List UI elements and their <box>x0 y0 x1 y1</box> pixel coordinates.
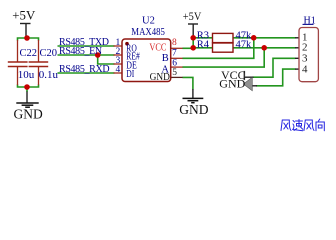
svg-text:GND: GND <box>150 72 170 83</box>
svg-text:RS485_EN: RS485_EN <box>59 46 102 57</box>
svg-text:GND: GND <box>14 107 43 122</box>
svg-text:4: 4 <box>302 63 308 75</box>
svg-text:2: 2 <box>302 41 308 53</box>
svg-text:5: 5 <box>172 68 177 78</box>
svg-text:MAX485: MAX485 <box>131 27 165 38</box>
svg-text:U2: U2 <box>142 16 155 27</box>
svg-text:C22: C22 <box>20 48 38 59</box>
svg-text:C20: C20 <box>40 48 58 59</box>
svg-text:4: 4 <box>116 65 121 75</box>
svg-text:10u: 10u <box>18 69 35 81</box>
svg-text:7: 7 <box>172 48 177 58</box>
svg-text:GND: GND <box>219 77 245 91</box>
svg-text:0.1u: 0.1u <box>39 69 59 81</box>
svg-text:DI: DI <box>126 69 134 80</box>
svg-text:GND: GND <box>179 102 208 117</box>
svg-text:+5V: +5V <box>183 9 202 23</box>
svg-text:+5V: +5V <box>12 8 36 23</box>
svg-text:R4: R4 <box>197 39 210 50</box>
svg-text:8: 8 <box>172 38 177 48</box>
svg-text:B: B <box>162 53 169 64</box>
svg-text:RS485_RXD: RS485_RXD <box>59 64 109 75</box>
svg-text:47k: 47k <box>236 39 253 50</box>
